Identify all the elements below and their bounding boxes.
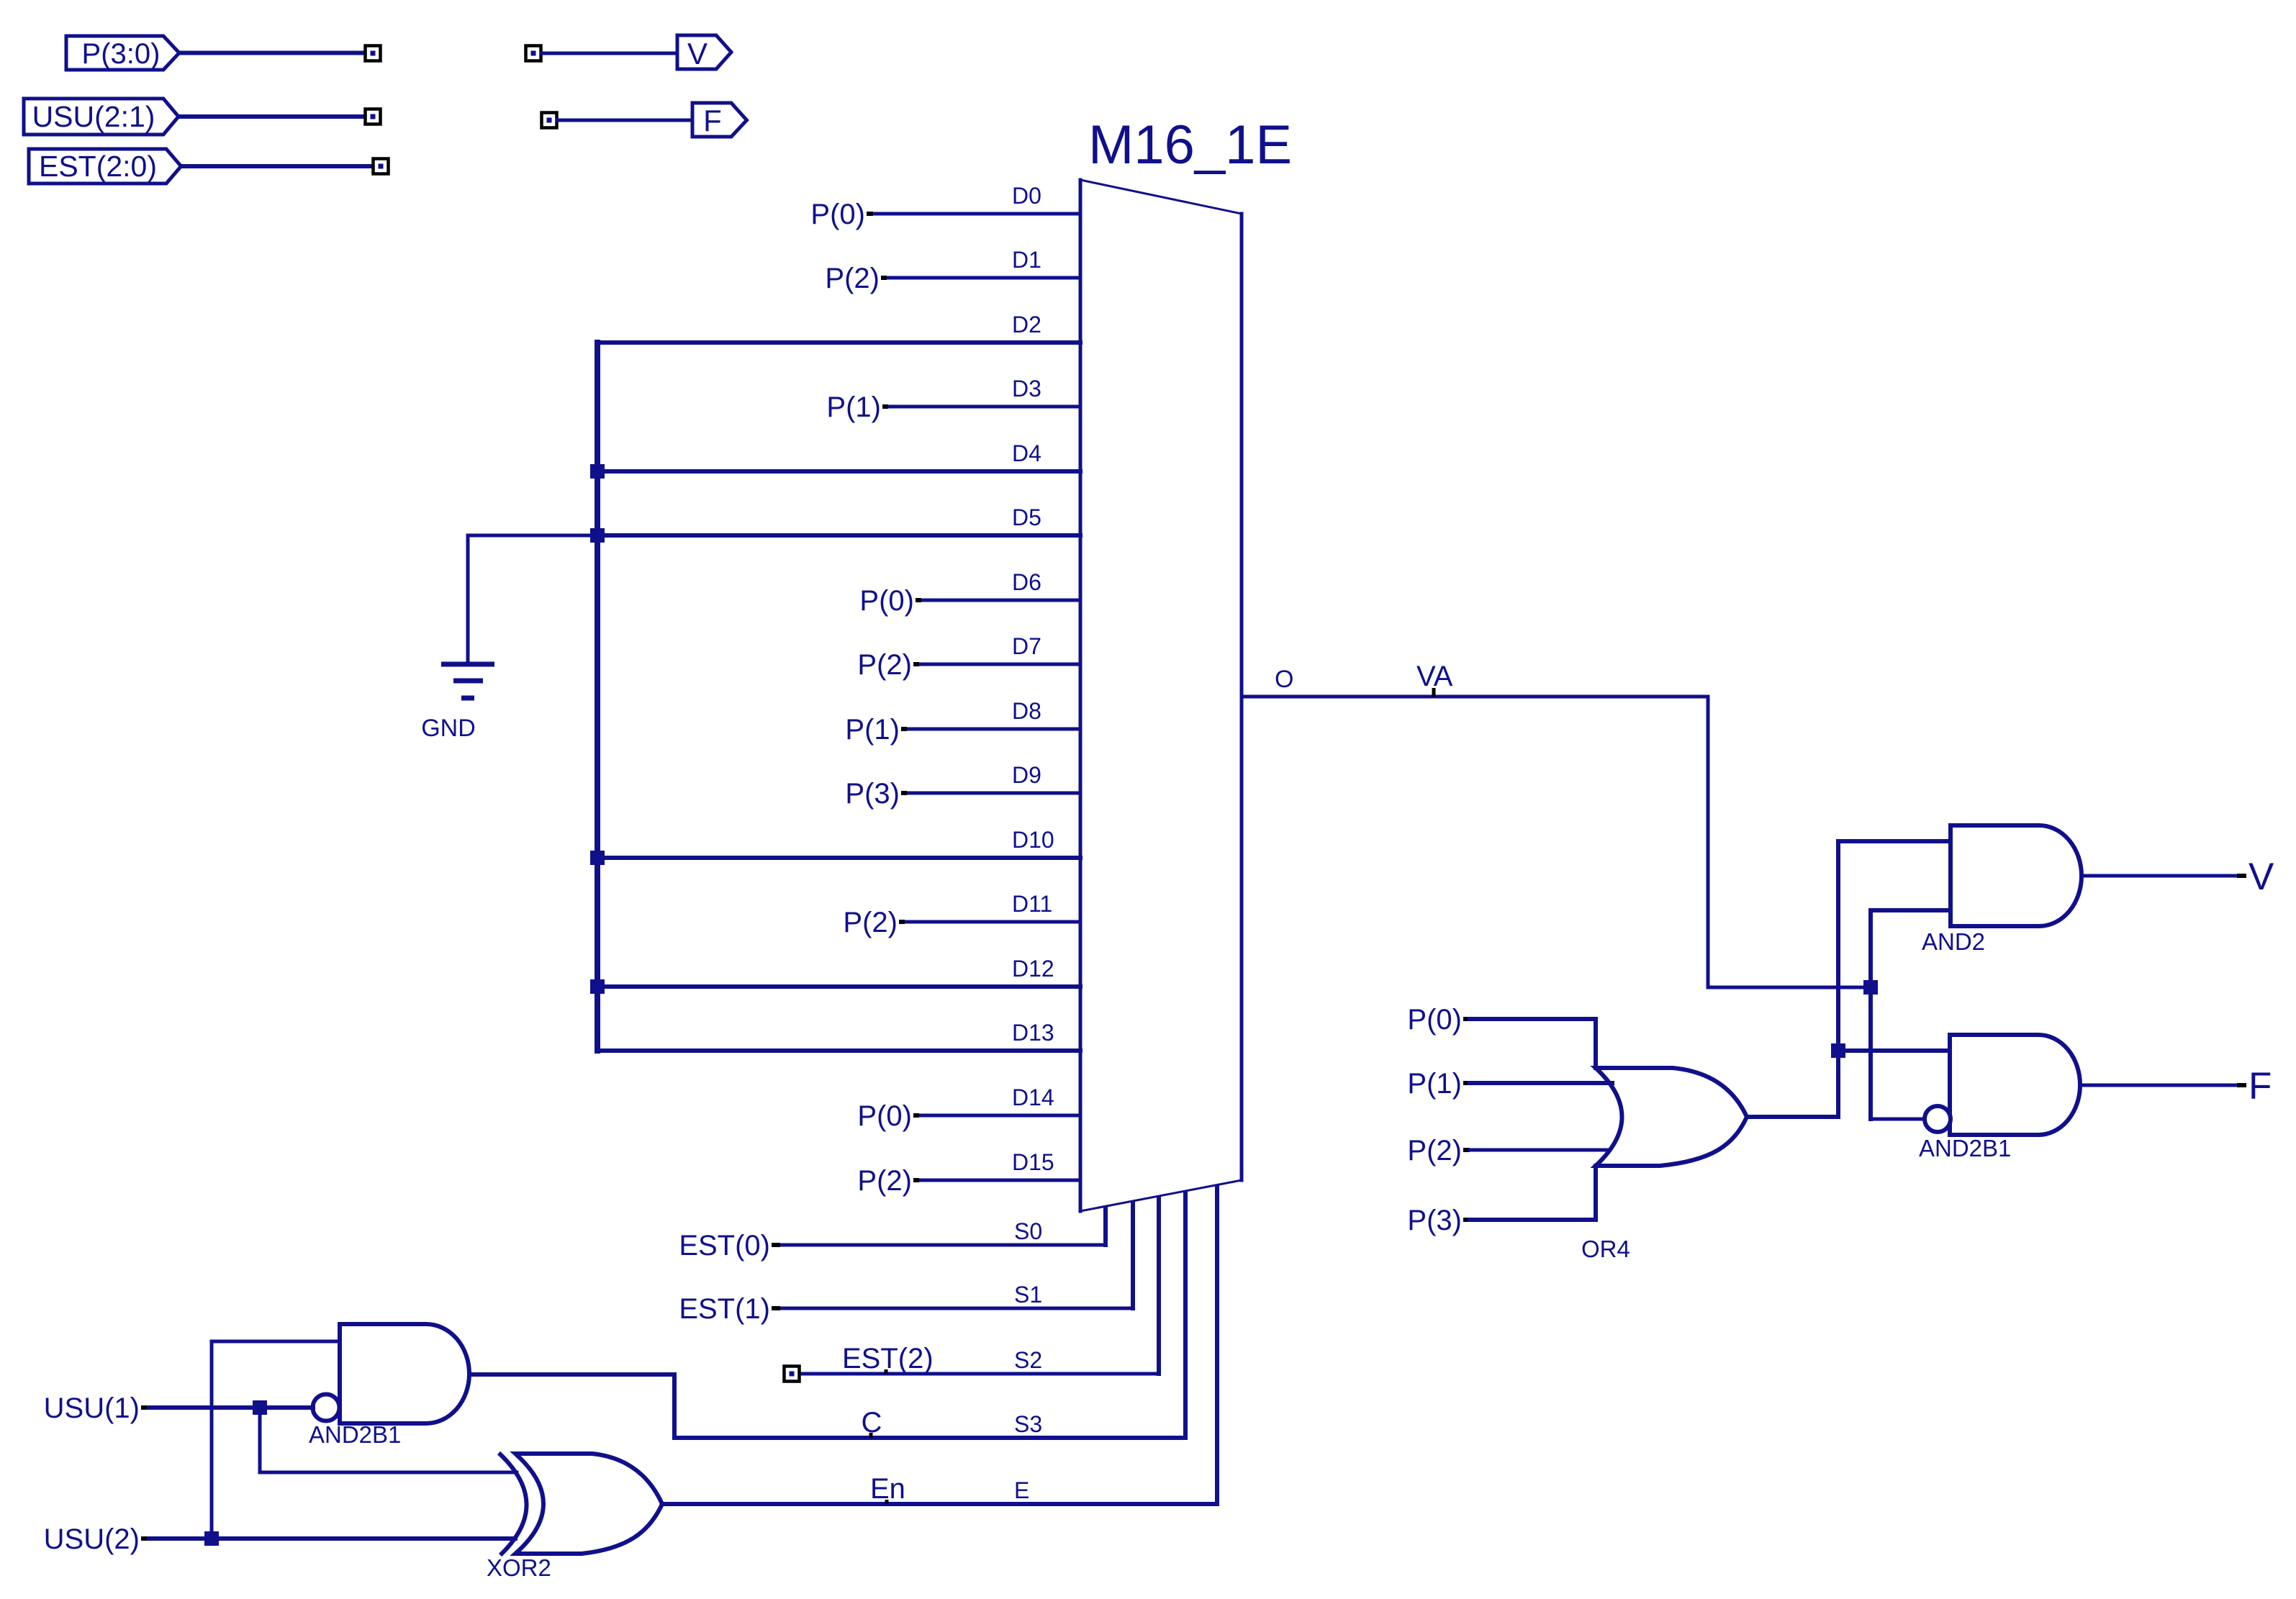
- svg-text:P(1): P(1): [826, 391, 881, 423]
- wire VA horizontal from mux: [1242, 695, 1708, 699]
- wire to D7: [919, 663, 1080, 666]
- svg-text:P(1): P(1): [1407, 1068, 1462, 1100]
- wire to AND2 input 1: [1838, 839, 1951, 843]
- svg-text:M16_1E: M16_1E: [1088, 114, 1292, 176]
- junction USU(1): [253, 1400, 267, 1415]
- svg-text:D0: D0: [1012, 183, 1041, 209]
- svg-text:AND2B1: AND2B1: [309, 1421, 401, 1448]
- wire to S3: [674, 1436, 1185, 1440]
- wire C net jog down: [672, 1374, 677, 1438]
- svg-text:V: V: [2248, 856, 2274, 898]
- wire to AND2B1 (lower-left) input 1: [212, 1340, 340, 1344]
- input terminal USU(2:1): [24, 99, 178, 135]
- wire USU(2:1) to terminal: [178, 114, 366, 119]
- wire to D10: [597, 856, 1080, 860]
- svg-text:P(2): P(2): [825, 263, 880, 294]
- wire to AND2 input 2: [1871, 908, 1951, 912]
- inverter bubble AND2B1: [1925, 1106, 1951, 1132]
- junction at bus y=1192: [590, 851, 605, 865]
- wire to D11: [905, 920, 1080, 924]
- svg-text:D12: D12: [1012, 956, 1054, 982]
- junction VA: [1863, 980, 1878, 995]
- pin S0 stub: [1103, 1208, 1108, 1245]
- wire to AND2B1 input 1: [1838, 1048, 1950, 1053]
- terminal square EST(2) net: [785, 1367, 800, 1382]
- wire to D3: [888, 405, 1080, 409]
- wire P(2) to OR4: [1470, 1149, 1609, 1152]
- terminal square P(3:0): [366, 46, 381, 61]
- svg-text:USU(2:1): USU(2:1): [32, 100, 155, 133]
- terminal square USU(2:1): [366, 109, 381, 124]
- svg-text:F: F: [2248, 1065, 2272, 1107]
- junction at bus y=655: [590, 464, 605, 479]
- wire AND2B1 (lower-left) output: [471, 1372, 674, 1377]
- wire to D12: [597, 984, 1080, 989]
- svg-text:OR4: OR4: [1581, 1236, 1630, 1262]
- svg-text:S3: S3: [1014, 1411, 1042, 1437]
- svg-text:V: V: [687, 37, 708, 71]
- wire USU(1): [149, 1405, 313, 1410]
- wire to D13: [597, 1048, 1080, 1053]
- svg-text:P(2): P(2): [1407, 1135, 1462, 1167]
- svg-text:P(1): P(1): [845, 714, 900, 746]
- wire P(1) to OR4: [1470, 1081, 1612, 1085]
- mux U1 M16_1E body: [1080, 180, 1242, 1211]
- svg-text:D14: D14: [1012, 1084, 1054, 1110]
- input terminal P(3:0): [66, 36, 179, 70]
- svg-text:S2: S2: [1014, 1347, 1042, 1373]
- svg-text:D11: D11: [1012, 891, 1052, 917]
- svg-text:P(0): P(0): [810, 199, 865, 230]
- svg-text:XOR2: XOR2: [487, 1554, 551, 1581]
- xor-gate XOR2 input arc: [499, 1453, 527, 1555]
- junction at bus y=744: [590, 528, 605, 543]
- wire EST(2:0) to terminal: [181, 164, 374, 168]
- junction at bus y=1371: [590, 979, 605, 994]
- svg-text:D9: D9: [1012, 762, 1041, 788]
- svg-text:P(2): P(2): [843, 907, 898, 938]
- junction USU(2): [204, 1531, 219, 1546]
- wire to D15: [919, 1179, 1080, 1182]
- svg-text:O: O: [1275, 666, 1293, 693]
- svg-text:D3: D3: [1012, 376, 1041, 402]
- xor-gate XOR2 body: [515, 1454, 662, 1554]
- wire bus vertical (D2/D4/D5/D10/D12/D13 common net): [595, 343, 600, 1051]
- wire to D0: [873, 212, 1080, 216]
- svg-text:P(3:0): P(3:0): [82, 38, 161, 70]
- wire P(3:0) to terminal: [179, 51, 366, 55]
- pin S3 stub: [1183, 1192, 1188, 1438]
- svg-text:D15: D15: [1012, 1149, 1054, 1175]
- wire to E: [662, 1502, 1217, 1506]
- input terminal EST(2:0): [29, 149, 181, 184]
- svg-text:E: E: [1014, 1477, 1029, 1503]
- svg-text:D8: D8: [1012, 698, 1041, 724]
- svg-text:AND2: AND2: [1922, 928, 1985, 955]
- wire to output terminal V: [541, 52, 677, 55]
- wire to S1: [780, 1307, 1133, 1310]
- wire VA to junction: [1708, 986, 1871, 989]
- wire to D6: [921, 599, 1080, 602]
- svg-text:P(0): P(0): [1407, 1004, 1462, 1036]
- output terminal V: [677, 35, 731, 69]
- pin S1 stub: [1131, 1202, 1135, 1308]
- svg-text:D1: D1: [1012, 247, 1041, 273]
- wire USU(1) to XOR2 input 1: [260, 1471, 517, 1475]
- svg-text:P(3): P(3): [1407, 1205, 1462, 1236]
- svg-text:P(3): P(3): [845, 778, 900, 810]
- svg-text:EST(0): EST(0): [679, 1230, 770, 1261]
- output terminal F: [692, 103, 747, 137]
- wire AND2B1 output F: [2080, 1084, 2237, 1087]
- and-gate AND2B1 body: [1950, 1035, 2080, 1135]
- wire to D4: [597, 469, 1080, 474]
- svg-text:D2: D2: [1012, 312, 1041, 338]
- wire to D14: [919, 1114, 1080, 1118]
- ground symbol GND: [441, 662, 494, 667]
- wire OR4 output: [1747, 1115, 1838, 1119]
- terminal square EST(2:0): [374, 159, 389, 174]
- svg-text:D6: D6: [1012, 569, 1041, 595]
- svg-text:F: F: [703, 104, 722, 137]
- terminal square V net: [526, 46, 541, 61]
- wire GND horizontal: [468, 534, 597, 538]
- wire to D1: [887, 276, 1080, 280]
- wire to AND2B1 bubble input: [1871, 1118, 1926, 1121]
- wire USU(2) to XOR2 input 2: [149, 1536, 515, 1541]
- svg-text:EST(2:0): EST(2:0): [39, 150, 157, 183]
- wire to output terminal F: [557, 119, 692, 122]
- or-gate OR4 body: [1596, 1068, 1747, 1166]
- svg-text:P(2): P(2): [857, 1165, 912, 1197]
- wire to D9: [907, 792, 1080, 795]
- wire P(0) to OR4: [1470, 1017, 1596, 1021]
- wire VA net vertical: [1868, 910, 1873, 1119]
- svg-text:USU(2): USU(2): [44, 1523, 140, 1555]
- svg-text:GND: GND: [421, 715, 476, 742]
- wire VA vertical: [1707, 697, 1710, 987]
- wire P(3) to OR4: [1470, 1218, 1596, 1222]
- junction OR4 net to AND2B1: [1831, 1043, 1845, 1058]
- inverter bubble AND2B1 (lower-left): [313, 1395, 340, 1421]
- wire GND vertical: [466, 535, 470, 663]
- svg-text:P(2): P(2): [857, 649, 912, 681]
- svg-text:S1: S1: [1014, 1282, 1042, 1308]
- pin S2 stub: [1157, 1197, 1161, 1374]
- svg-text:D7: D7: [1012, 633, 1041, 659]
- svg-text:D13: D13: [1012, 1020, 1054, 1046]
- pin E stub: [1215, 1187, 1219, 1504]
- svg-text:P(0): P(0): [857, 1100, 912, 1132]
- terminal square F net: [542, 113, 557, 128]
- svg-text:VA: VA: [1416, 661, 1453, 692]
- svg-text:EST(1): EST(1): [679, 1293, 770, 1325]
- wire OR4 net vertical: [1836, 841, 1840, 1117]
- wire to S2: [800, 1372, 1159, 1376]
- wire to D2: [597, 340, 1080, 345]
- and-gate AND2 body: [1951, 825, 2082, 926]
- svg-text:D5: D5: [1012, 504, 1041, 530]
- wire AND2 output V: [2082, 874, 2237, 878]
- wire to S0: [780, 1244, 1106, 1247]
- wire to D8: [907, 728, 1080, 731]
- svg-text:AND2B1: AND2B1: [1919, 1135, 2011, 1161]
- wire USU(2) vertical to AND2B1 input 1: [210, 1341, 214, 1539]
- svg-text:USU(1): USU(1): [44, 1392, 140, 1424]
- svg-text:P(0): P(0): [859, 585, 914, 617]
- svg-text:D4: D4: [1012, 440, 1041, 466]
- wire USU(1) jog down: [258, 1408, 262, 1472]
- svg-text:D10: D10: [1012, 827, 1054, 853]
- and-gate AND2B1 (lower-left) body: [340, 1324, 469, 1423]
- wire to D5: [597, 533, 1080, 538]
- svg-text:S0: S0: [1014, 1218, 1042, 1244]
